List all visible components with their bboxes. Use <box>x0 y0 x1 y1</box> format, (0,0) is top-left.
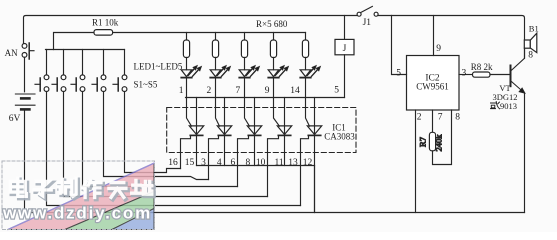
wire S1 to base pin 13 <box>47 92 301 206</box>
svg-text:14: 14 <box>290 86 300 96</box>
wire LED2 cathode to IC1 pin <box>216 79 220 127</box>
wire IC2 pin 2 to ground <box>415 110 417 213</box>
wire R7 bottom to pin 8 <box>433 110 452 165</box>
svg-text:R7: R7 <box>417 137 427 147</box>
IC1 transistor T1 <box>181 98 204 169</box>
LED2 <box>210 66 230 78</box>
wire S2 to base pin 10 <box>64 92 268 197</box>
svg-text:3: 3 <box>462 68 467 78</box>
label pin 5 <box>396 69 401 79</box>
label or-9013 <box>491 101 518 111</box>
wire anode rail to relay <box>186 97 345 99</box>
resistor R6 680 (column 5) <box>302 33 308 70</box>
wire R8 to VT base <box>490 74 510 76</box>
IC1 transistor T2 <box>209 98 232 180</box>
wire bus drop from R1 rail <box>54 33 95 50</box>
LED5 <box>300 66 320 78</box>
wire LED5 cathode to IC1 pin <box>306 79 310 127</box>
wire IC2 pin 9 to rail <box>433 16 435 56</box>
svg-text:13: 13 <box>288 158 298 168</box>
resistor R4 680 (column 3) <box>241 33 247 70</box>
svg-text:1: 1 <box>179 86 184 96</box>
wire emitter common line <box>197 165 315 167</box>
wire LED4 cathode to IC1 pin <box>274 79 280 127</box>
svg-text:CW9561: CW9561 <box>416 82 449 92</box>
pushbutton S3 <box>71 75 85 92</box>
svg-text:R×5 680: R×5 680 <box>256 19 288 29</box>
IC1 bottom pin labels 16 15 3 4 6 8 10 11 13 12 <box>168 158 312 168</box>
relay coil J <box>335 39 354 54</box>
wire emitter common to IC2 pin 2 junction <box>314 166 316 213</box>
wire LED3 cathode to IC1 pin <box>245 79 250 127</box>
wire S3 to base pin 6 <box>83 92 238 187</box>
IC1 dashed outline <box>167 108 356 153</box>
wire battery to ground rail <box>24 111 26 213</box>
svg-text:2: 2 <box>417 113 422 123</box>
svg-text:6: 6 <box>230 158 235 168</box>
svg-text:R1 10k: R1 10k <box>92 17 119 27</box>
svg-text:8: 8 <box>245 158 250 168</box>
svg-text:J1: J1 <box>363 18 372 28</box>
wire top rail left segment with corner to AN <box>24 16 358 44</box>
switch J1 <box>357 6 378 27</box>
svg-text:R8 2k: R8 2k <box>471 62 493 72</box>
svg-text:LED1~LED5: LED1~LED5 <box>134 62 183 72</box>
label IC1 <box>332 123 346 133</box>
svg-text:7: 7 <box>235 86 240 96</box>
svg-text:S1~S5: S1~S5 <box>134 80 158 90</box>
watermark text www.dzdiy.com <box>2 203 152 222</box>
svg-text:www.dzdiy.com: www.dzdiy.com <box>2 203 152 222</box>
IC1 transistor T4 <box>268 98 292 197</box>
pushbutton S4 <box>92 75 106 92</box>
watermark color triangles <box>8 163 154 229</box>
label 3DG12 <box>492 92 517 102</box>
resistor R8 2k <box>471 62 493 77</box>
svg-text:5: 5 <box>334 86 339 96</box>
wire IC2 pin 5 to rail <box>392 16 407 75</box>
wire switch top stubs <box>47 50 125 75</box>
transistor VT <box>511 48 525 93</box>
label pin 8 <box>455 113 460 123</box>
resistor R5 680 (column 4) <box>270 33 276 70</box>
resistor R2 680 (column 1) <box>183 33 189 70</box>
wire ground rail <box>25 212 525 214</box>
svg-text:2: 2 <box>206 86 211 96</box>
watermark text dianzizhizuotiandi <box>10 178 153 199</box>
label pin 9 <box>436 44 441 54</box>
wire relay coil to anode rail <box>344 55 346 98</box>
resistor R1 10k <box>92 17 119 35</box>
svg-text:11: 11 <box>274 158 283 168</box>
LED1 <box>181 66 201 78</box>
svg-text:8: 8 <box>528 51 533 61</box>
wire VT emitter to ground <box>524 93 526 213</box>
label pin 3 <box>462 68 467 78</box>
wire IC2 pin 7 to R7 <box>432 110 434 133</box>
label pin 7 <box>438 113 443 123</box>
wire S4 to base pin 3 <box>104 92 209 180</box>
pushbutton S1 <box>35 75 49 92</box>
svg-text:AN: AN <box>5 48 18 58</box>
wire resistor rail <box>113 32 306 34</box>
label pin 5 of IC1 <box>334 86 339 96</box>
svg-text:J: J <box>343 44 347 54</box>
svg-text:16: 16 <box>168 158 178 168</box>
svg-text:4: 4 <box>217 158 222 168</box>
wire top rail to relay coil <box>344 16 346 40</box>
resistor R7 240k <box>417 132 443 151</box>
IC2 CW9561 box <box>407 56 460 111</box>
watermark border <box>2 161 155 230</box>
speaker B1 <box>524 24 538 53</box>
wire AN to battery <box>24 57 26 92</box>
pushbutton AN <box>5 43 34 59</box>
svg-text:CA3083: CA3083 <box>324 131 355 141</box>
wire speaker to VT collector <box>524 48 526 58</box>
svg-text:10: 10 <box>256 158 266 168</box>
battery GB 6V <box>9 94 35 124</box>
svg-text:9: 9 <box>265 86 270 96</box>
svg-text:6V: 6V <box>9 114 21 124</box>
svg-text:3: 3 <box>201 158 206 168</box>
wire switch bus <box>46 49 125 51</box>
wire LED1 cathode to IC1 pin <box>187 79 192 127</box>
label 8 ohm <box>528 51 533 61</box>
resistor R3 680 (column 2) <box>212 33 218 70</box>
wire S5 to base pin 16 <box>125 92 181 173</box>
svg-text:240k: 240k <box>433 134 443 152</box>
label VT <box>499 83 511 93</box>
label CA3083 <box>324 131 355 141</box>
svg-text:7: 7 <box>438 113 443 123</box>
svg-text:9013: 9013 <box>500 101 517 111</box>
IC1 transistor T5 <box>301 98 322 213</box>
IC1 transistor T3 <box>238 98 262 187</box>
label pin 2 <box>417 113 422 123</box>
pin labels 1 2 7 9 14 <box>179 86 300 96</box>
svg-text:5: 5 <box>396 69 401 79</box>
svg-text:12: 12 <box>303 158 313 168</box>
svg-text:15: 15 <box>185 158 195 168</box>
wire top rail right segment to speaker corner <box>378 16 524 41</box>
pushbutton S5 <box>113 75 127 92</box>
svg-text:9: 9 <box>436 44 441 54</box>
wire IC2 pin 3 to R8 <box>459 74 473 76</box>
pushbutton S2 <box>52 75 66 92</box>
svg-text:8: 8 <box>455 113 460 123</box>
LED4 <box>268 66 288 78</box>
label R x 5 680 <box>256 19 288 29</box>
label LED1~LED5 <box>134 62 183 72</box>
label S1~S5 <box>134 80 158 90</box>
svg-text:B1: B1 <box>529 24 539 34</box>
LED3 <box>239 66 259 78</box>
